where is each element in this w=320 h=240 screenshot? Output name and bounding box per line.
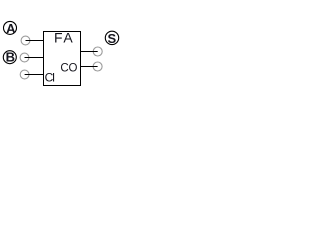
- node label S: [105, 31, 118, 44]
- svg-text:CO: CO: [60, 63, 77, 75]
- output pin CO terminal: [93, 62, 102, 71]
- background: [0, 0, 128, 128]
- node label A: [4, 21, 17, 34]
- wire CO: [80, 66, 98, 68]
- svg-text:A: A: [6, 21, 16, 36]
- input pin A terminal: [21, 36, 30, 45]
- full adder box U1: [44, 32, 81, 86]
- input pin B terminal: [20, 53, 29, 62]
- wire S: [80, 51, 98, 53]
- output pin S terminal: [93, 47, 102, 56]
- svg-text:S: S: [107, 31, 116, 46]
- svg-text:B: B: [6, 50, 15, 65]
- wire CI: [25, 74, 44, 76]
- node label B: [3, 51, 16, 64]
- wire A: [26, 40, 44, 42]
- input pin CI terminal: [20, 70, 29, 79]
- svg-text:FA: FA: [54, 30, 74, 46]
- svg-text:I: I: [52, 70, 55, 84]
- wire B: [25, 57, 44, 59]
